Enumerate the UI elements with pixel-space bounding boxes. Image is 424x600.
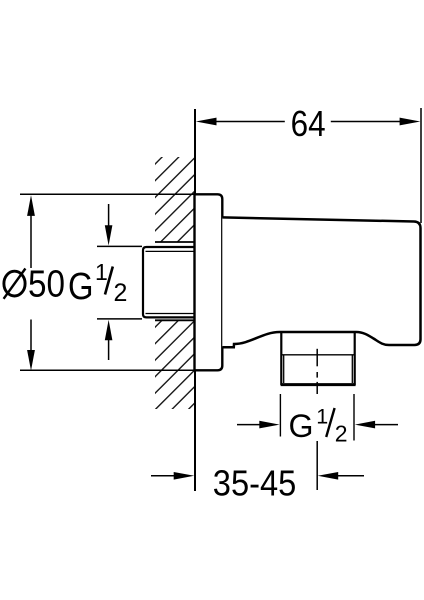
dim O50 extension bottom xyxy=(20,369,194,371)
dim 35-45 arrow right xyxy=(318,472,364,480)
dim 64 extension right xyxy=(420,108,422,223)
dim O50 arrowhead bottom xyxy=(27,350,35,371)
dim O50 arrowhead top xyxy=(27,195,35,216)
svg-text:G: G xyxy=(289,408,314,444)
outlet collar right edge xyxy=(354,332,356,385)
dim 64 line right segment xyxy=(331,121,401,123)
rear thread dim arrow bottom xyxy=(105,320,113,360)
rear thread dim extension top xyxy=(97,245,142,247)
outlet collar left edge xyxy=(280,332,282,385)
svg-text:2: 2 xyxy=(114,279,128,307)
dim O50 line top segment xyxy=(30,215,32,268)
wall hole bottom edge xyxy=(155,319,195,321)
outlet dim extension right xyxy=(353,394,355,441)
rear thread dim arrow top xyxy=(105,204,113,246)
dim G1/2 outlet arrow left xyxy=(237,421,280,429)
wall surface line xyxy=(194,109,196,491)
rear thread inner line bottom xyxy=(146,313,197,315)
rear thread dim extension bottom xyxy=(97,318,142,320)
wall hole top edge xyxy=(155,241,195,243)
outlet bottom face xyxy=(281,383,356,386)
dim 35-45 arrow left xyxy=(151,472,194,480)
svg-text:64: 64 xyxy=(291,103,326,144)
body outline xyxy=(222,217,420,347)
svg-text:50: 50 xyxy=(28,263,65,305)
dim 64 line left segment xyxy=(216,121,285,123)
wall hatching xyxy=(146,113,206,452)
dim G1/2 outlet arrow right xyxy=(355,421,398,429)
outlet dim extension left xyxy=(279,394,281,437)
rear thread inner line top xyxy=(146,250,197,252)
outlet thread shoulder xyxy=(281,354,354,356)
outlet thread inner left xyxy=(283,356,285,384)
svg-text:G: G xyxy=(68,266,94,308)
label G 1/2 rear: slash xyxy=(105,267,113,295)
svg-text:1: 1 xyxy=(95,259,108,285)
flange (escutcheon) xyxy=(195,194,223,370)
outlet centerline xyxy=(316,349,318,490)
svg-text:35-45: 35-45 xyxy=(213,463,296,504)
svg-text:1: 1 xyxy=(316,404,328,428)
dim O50 label xyxy=(4,269,26,299)
svg-text:2: 2 xyxy=(335,421,348,447)
rear thread connector G1/2 xyxy=(143,247,196,317)
outlet thread inner right xyxy=(351,356,353,384)
dim O50 line bottom segment xyxy=(30,320,32,352)
dim O50 extension top xyxy=(20,193,194,195)
dim 64 arrowhead left xyxy=(196,118,217,126)
label G 1/2 outlet: slash xyxy=(326,408,334,437)
dim 64 arrowhead right xyxy=(400,118,421,126)
